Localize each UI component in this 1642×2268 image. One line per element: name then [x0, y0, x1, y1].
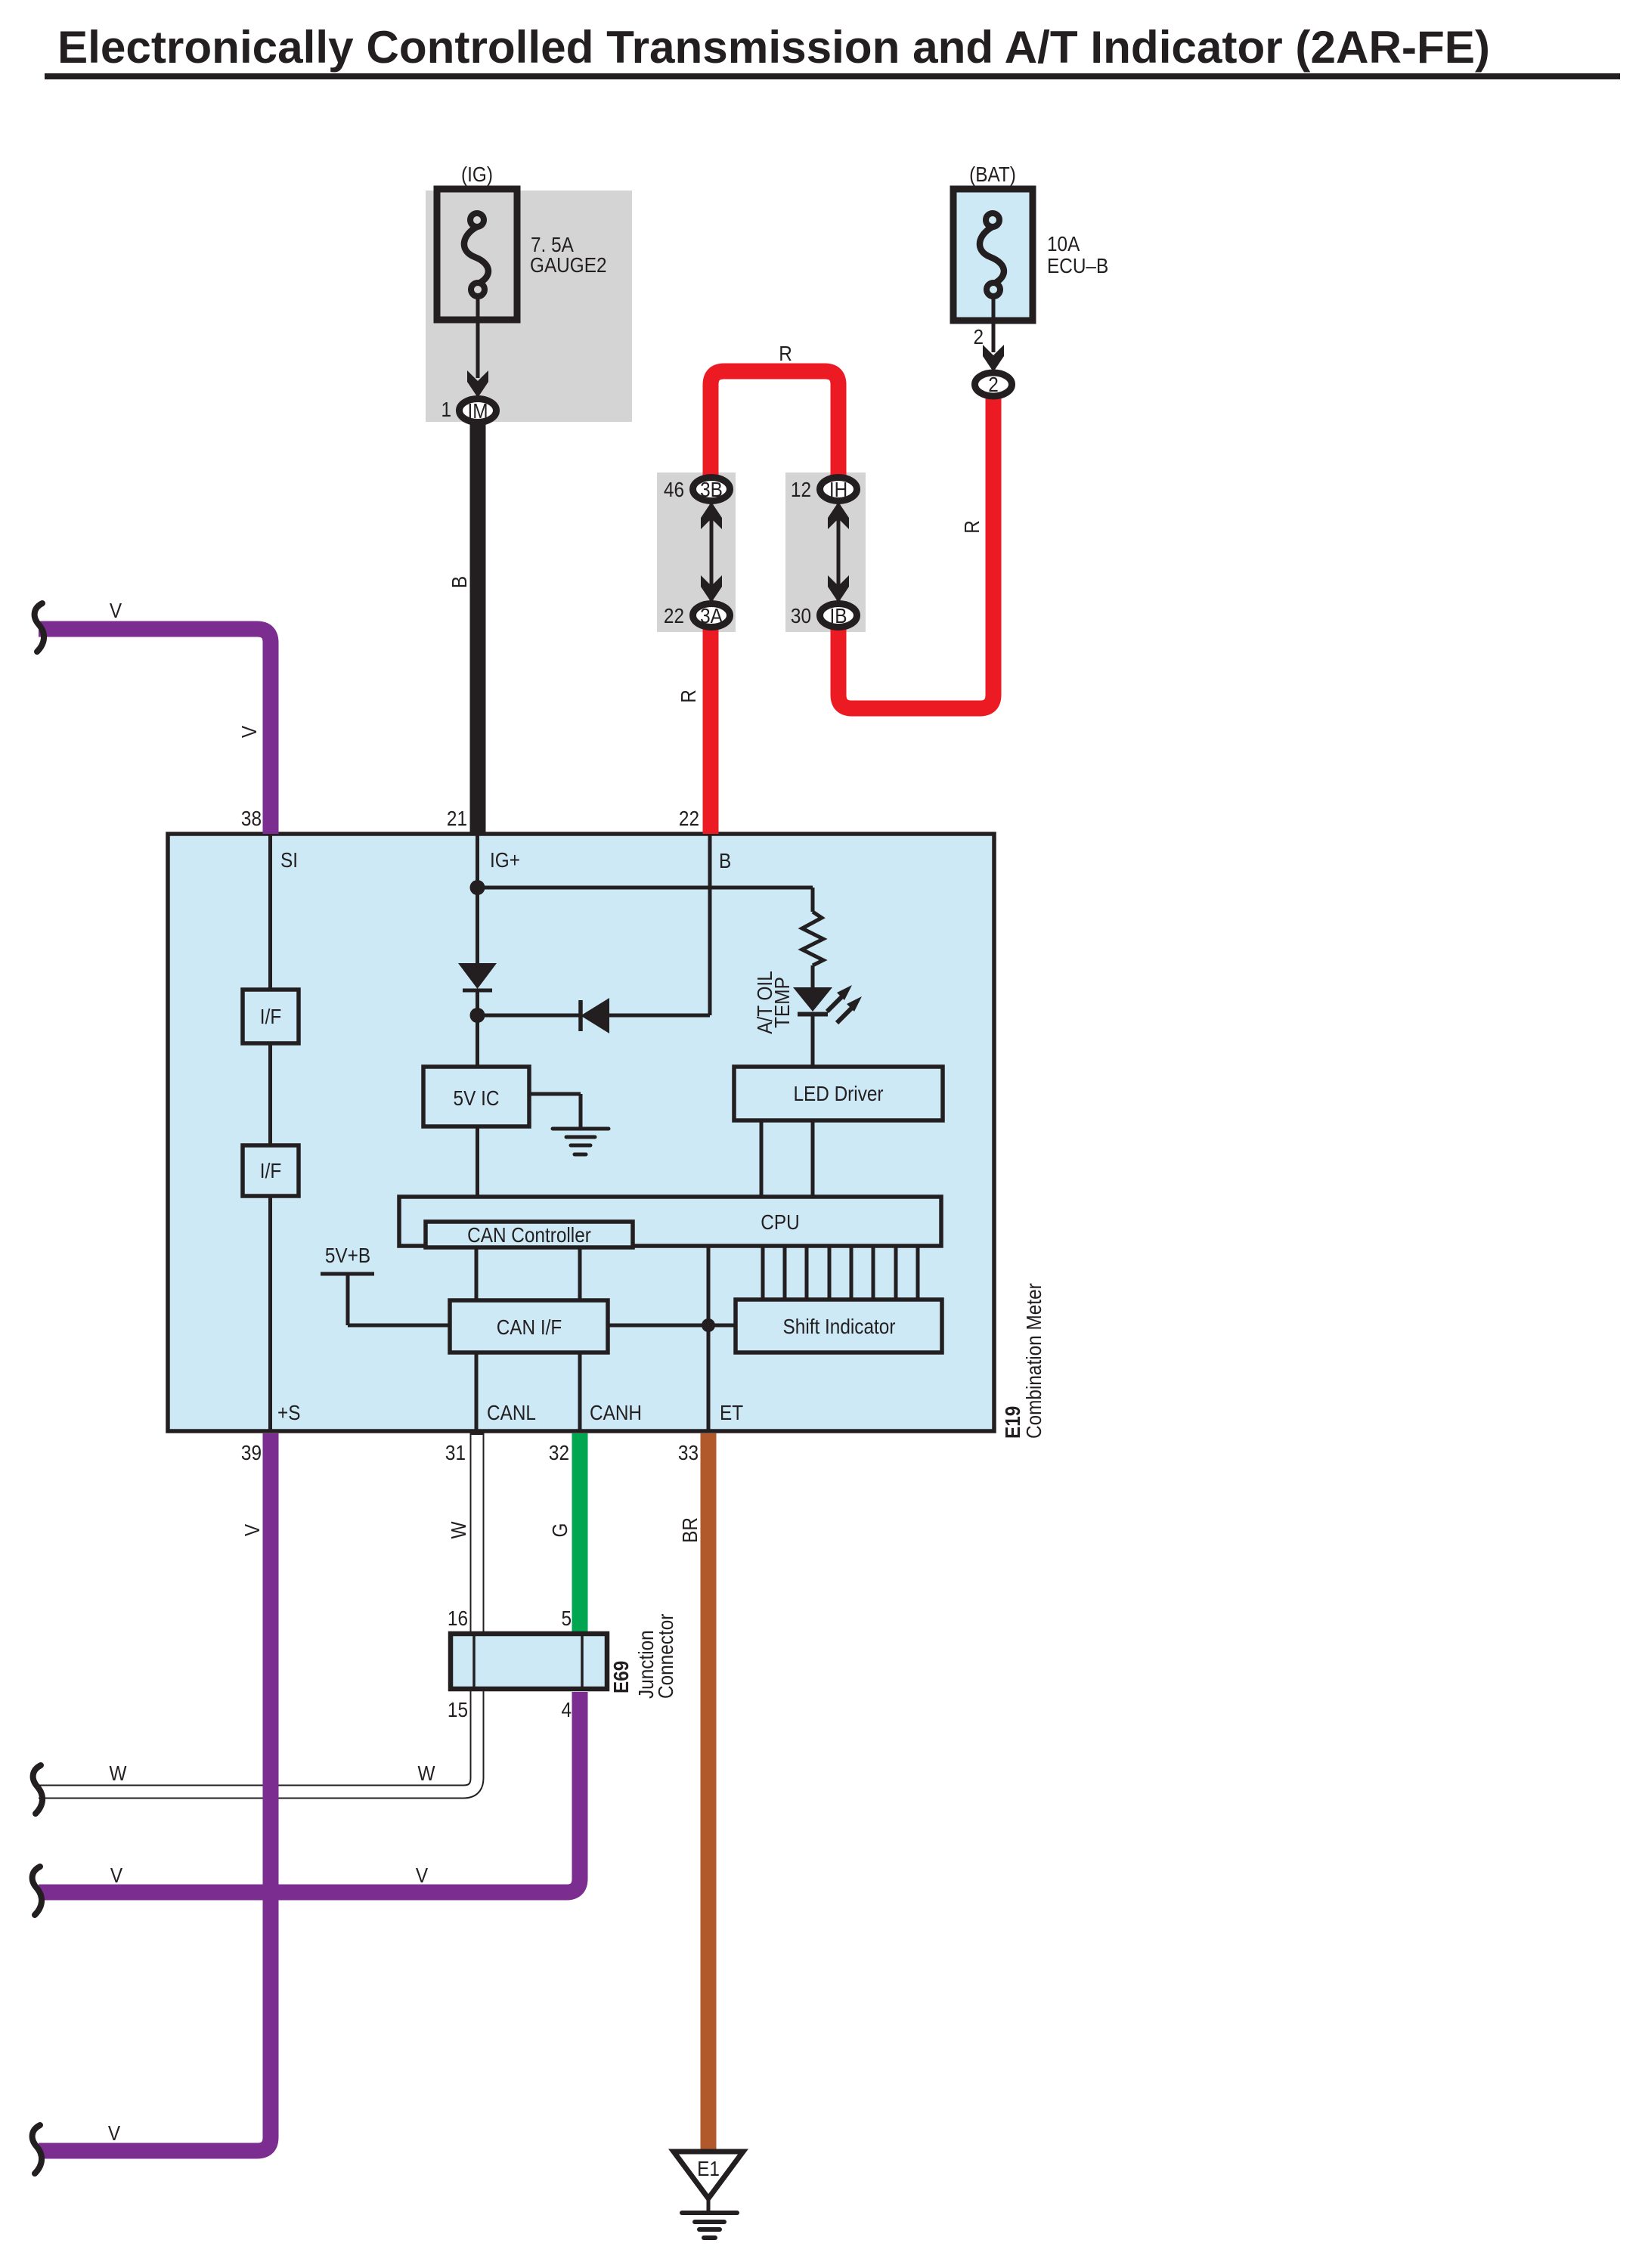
svg-text:B: B: [719, 848, 731, 872]
svg-text:SI: SI: [280, 847, 298, 872]
svg-text:Connector: Connector: [653, 1613, 677, 1699]
svg-text:ECU–B: ECU–B: [1047, 253, 1108, 277]
svg-text:4: 4: [561, 1697, 572, 1721]
svg-text:21: 21: [447, 806, 467, 830]
svg-text:15: 15: [448, 1697, 468, 1721]
svg-text:R: R: [676, 689, 700, 703]
svg-text:39: 39: [241, 1440, 262, 1464]
svg-text:10A: 10A: [1047, 231, 1080, 256]
svg-text:LED Driver: LED Driver: [793, 1081, 883, 1105]
svg-text:V: V: [416, 1863, 429, 1887]
svg-text:IB: IB: [829, 603, 847, 627]
svg-text:BR: BR: [677, 1517, 702, 1543]
svg-text:Combination Meter: Combination Meter: [1021, 1283, 1046, 1439]
svg-text:IG+: IG+: [490, 847, 520, 872]
svg-text:B: B: [447, 576, 471, 588]
svg-text:R: R: [959, 520, 984, 534]
svg-text:5V+B: 5V+B: [325, 1243, 370, 1267]
svg-text:2: 2: [973, 324, 984, 349]
svg-text:I/F: I/F: [260, 1158, 281, 1182]
svg-text:V: V: [237, 725, 261, 738]
svg-text:22: 22: [679, 806, 699, 830]
svg-text:46: 46: [664, 477, 684, 501]
svg-text:30: 30: [791, 603, 811, 627]
svg-text:2: 2: [988, 372, 999, 396]
svg-text:12: 12: [791, 477, 811, 501]
svg-text:V: V: [110, 598, 122, 622]
svg-text:W: W: [418, 1761, 435, 1785]
svg-text:IM: IM: [467, 398, 488, 423]
svg-text:IH: IH: [829, 477, 847, 501]
svg-text:R: R: [779, 341, 792, 365]
svg-text:(IG): (IG): [461, 162, 493, 186]
svg-text:22: 22: [664, 603, 684, 627]
svg-text:+S: +S: [277, 1400, 300, 1424]
svg-text:33: 33: [678, 1440, 699, 1464]
svg-text:E1: E1: [697, 2156, 720, 2180]
svg-text:V: V: [240, 1523, 264, 1536]
svg-text:CANL: CANL: [487, 1400, 536, 1424]
svg-text:(BAT): (BAT): [969, 162, 1016, 186]
svg-text:I/F: I/F: [260, 1004, 281, 1028]
svg-text:3A: 3A: [700, 603, 723, 627]
svg-text:38: 38: [241, 806, 262, 830]
svg-text:Electronically Controlled Tran: Electronically Controlled Transmission a…: [57, 22, 1490, 73]
svg-text:V: V: [108, 2121, 121, 2145]
svg-text:GAUGE2: GAUGE2: [530, 253, 607, 277]
svg-text:3B: 3B: [700, 477, 723, 501]
svg-text:5V IC: 5V IC: [454, 1086, 500, 1110]
svg-text:CANH: CANH: [590, 1400, 642, 1424]
svg-text:5: 5: [561, 1606, 572, 1630]
svg-text:V: V: [110, 1863, 123, 1887]
svg-text:CAN I/F: CAN I/F: [497, 1315, 562, 1339]
svg-text:G: G: [547, 1523, 572, 1538]
svg-text:32: 32: [549, 1440, 569, 1464]
svg-text:W: W: [110, 1761, 127, 1785]
svg-text:TEMP: TEMP: [770, 977, 794, 1028]
svg-text:16: 16: [448, 1606, 468, 1630]
svg-text:31: 31: [445, 1440, 466, 1464]
svg-text:CAN Controller: CAN Controller: [467, 1222, 591, 1247]
svg-text:E69: E69: [609, 1661, 633, 1693]
svg-text:ET: ET: [720, 1400, 743, 1424]
svg-text:CPU: CPU: [761, 1210, 799, 1234]
svg-text:1: 1: [441, 397, 451, 421]
svg-text:W: W: [446, 1521, 470, 1538]
svg-text:Shift Indicator: Shift Indicator: [783, 1314, 896, 1338]
